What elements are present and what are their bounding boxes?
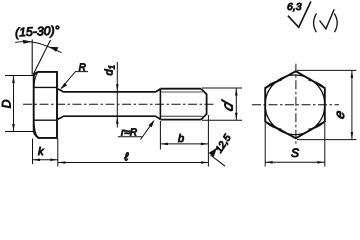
- svg-text:d1: d1: [104, 65, 117, 76]
- corner chamfer arc top-right: [309, 81, 324, 87]
- svg-text:k: k: [38, 146, 44, 158]
- dimension l line with arrows: [58, 162, 209, 164]
- shank outline bottom: [58, 116, 161, 119]
- chamfer angle dimension arc: [15, 42, 61, 53]
- bolt head outline: [34, 72, 57, 138]
- dimension D line with arrows: [13, 76, 15, 132]
- corner chamfer arc bottom-left: [266, 123, 281, 129]
- thread start line: [159, 89, 161, 120]
- thread-start extension line: [159, 121, 161, 150]
- thread minor line bottom: [161, 115, 202, 117]
- k extension line right: [57, 139, 59, 167]
- svg-text:(15-30)°: (15-30)°: [15, 23, 60, 39]
- thread major outline bottom: [160, 119, 201, 121]
- S extension line left: [264, 123, 266, 167]
- head bottom face chamfer arc: [34, 121, 38, 138]
- hexagon head end view: [265, 71, 325, 138]
- head top face chamfer arc: [34, 73, 38, 88]
- head middle face chamfer arc: [32, 88, 35, 120]
- corner chamfer arc bottom-right: [309, 123, 324, 129]
- svg-text:e: e: [332, 108, 347, 120]
- roughness 12,5 at end face: [209, 148, 217, 157]
- svg-text:12,5: 12,5: [214, 132, 234, 155]
- end view horizontal centerline: [252, 104, 339, 106]
- svg-text:ℓ: ℓ: [124, 152, 129, 164]
- bolt centerline: [23, 103, 214, 105]
- end view vertical centerline: [295, 64, 297, 145]
- arc arrowhead right: [50, 47, 59, 52]
- thread major outline top: [160, 88, 201, 90]
- chamfer angle extension line: [31, 40, 33, 76]
- chamfer angle slant line: [33, 40, 50, 75]
- thread minor line top: [161, 91, 202, 93]
- dimension S line with arrows: [265, 161, 325, 163]
- dimension D extension lines: [5, 75, 33, 77]
- dimension b line with arrows: [160, 143, 208, 145]
- dimension d line with arrows: [235, 88, 237, 120]
- e extension line top: [297, 69, 357, 71]
- svg-text:b: b: [178, 133, 184, 145]
- S extension line right: [324, 123, 326, 167]
- head lower face division line: [34, 119, 57, 121]
- dimension d extension lines: [202, 87, 242, 89]
- svg-text:S: S: [291, 146, 299, 160]
- corner chamfer arc top-left: [266, 81, 281, 87]
- arc arrowhead left: [23, 40, 33, 44]
- shank outline top: [58, 89, 161, 92]
- thread end face: [206, 94, 208, 115]
- thread end chamfer top: [201, 89, 207, 95]
- dimension e line with arrows: [351, 70, 353, 139]
- dimension d1 line: [116, 62, 118, 128]
- svg-text:6,3: 6,3: [287, 1, 302, 13]
- e extension line bottom: [297, 139, 357, 141]
- roughness mark (√): [314, 14, 317, 33]
- k extension line left: [32, 139, 34, 165]
- thread end chamfer bottom: [201, 114, 207, 120]
- svg-text:D: D: [0, 99, 14, 108]
- head upper face division line: [34, 86, 57, 88]
- svg-text:d: d: [220, 98, 236, 114]
- end-face extension line: [207, 115, 209, 167]
- dimension k line with arrows: [33, 159, 58, 161]
- chamfer circle: [265, 75, 325, 135]
